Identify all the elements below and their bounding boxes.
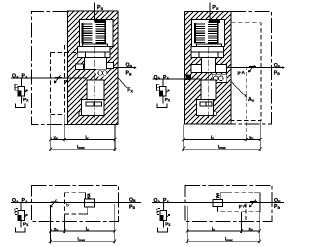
dimension line lmax BL — [49, 240, 116, 243]
svg-text:xv: xv — [54, 135, 59, 141]
flange side pockets TL — [78, 52, 86, 58]
dimension line lv/xv BR — [186, 229, 261, 232]
valve spring BR — [216, 193, 219, 198]
svg-text:QB: QB — [274, 198, 281, 204]
valve drain line BL — [84, 207, 88, 214]
spring TL — [82, 21, 107, 43]
spool neck TR — [199, 52, 218, 58]
dashed pilot box TR — [231, 23, 261, 121]
svg-text:QB: QB — [126, 63, 133, 69]
port B line TL — [114, 67, 136, 69]
svg-text:lmax: lmax — [225, 237, 233, 243]
tank symbol BL — [16, 228, 26, 232]
svg-text:PX: PX — [165, 221, 171, 227]
pilot tap line BL — [67, 202, 69, 206]
metering orifice detail TR — [212, 74, 226, 82]
svg-text:xv: xv — [249, 135, 254, 141]
valve body block TR (hatched) — [184, 12, 231, 124]
spool flange TL — [78, 46, 110, 52]
svg-text:FX: FX — [127, 88, 133, 94]
right port B cavity TL — [106, 63, 113, 69]
adjuster slashes BR — [250, 200, 258, 207]
pilot corner line BL — [80, 193, 85, 199]
relief valve symbol BL — [15, 202, 28, 227]
dimension line lmax TR — [182, 147, 262, 151]
pilot box solid corner BR — [254, 193, 260, 212]
relief valve symbol TL — [15, 78, 28, 103]
svg-text:lv: lv — [212, 226, 215, 232]
spool tip TL — [86, 102, 101, 106]
chain frame TR — [231, 12, 271, 124]
main line BR — [152, 201, 284, 203]
svg-text:PX: PX — [23, 221, 29, 227]
svg-text:lmax: lmax — [77, 145, 85, 151]
spring lower seat TL — [83, 44, 108, 46]
svg-text:lmax: lmax — [218, 145, 226, 151]
tank symbol TR — [157, 103, 167, 107]
main line A TR — [153, 78, 201, 80]
spring TR — [194, 21, 219, 43]
pilot corner line BR — [220, 193, 227, 200]
svg-text:lv: lv — [86, 135, 89, 141]
spool lower body TL — [87, 80, 104, 100]
svg-text:PA: PA — [163, 75, 169, 81]
dimension extension lines BL — [50, 204, 114, 244]
metering orifice detail TL — [96, 70, 108, 77]
svg-text:xv: xv — [249, 226, 254, 232]
tank symbol BR — [158, 228, 168, 232]
adjuster slashes TL — [54, 75, 68, 83]
spring chamber TL — [80, 19, 113, 46]
chain frame BL — [32, 185, 119, 221]
dimension line xv/lv BL — [49, 229, 116, 232]
relief valve symbol BR — [157, 202, 170, 227]
chain frame BR — [185, 185, 272, 221]
dimension line xv/lv TL — [49, 138, 116, 141]
svg-text:lv: lv — [211, 135, 214, 141]
dimension line lmax TL — [49, 148, 116, 151]
svg-text:QB: QB — [274, 63, 281, 69]
dimension line lv/xv TR — [182, 138, 262, 141]
svg-text:lmax: lmax — [78, 237, 86, 243]
spool neck TL — [86, 52, 105, 58]
svg-text:PX: PX — [165, 97, 171, 103]
svg-text:xv: xv — [54, 226, 59, 232]
svg-text:QA: QA — [12, 74, 19, 80]
dashed pilot box BR — [218, 193, 260, 212]
svg-text:PB: PB — [126, 71, 132, 77]
tank symbol TL — [16, 103, 26, 107]
svg-text:PA: PA — [163, 198, 169, 204]
valve spring BL — [87, 194, 90, 199]
dimension extension lines TR — [184, 66, 261, 151]
spool centre land TL — [85, 58, 107, 70]
svg-text:PB: PB — [274, 70, 280, 76]
pilot pressure line P TL — [94, 3, 96, 22]
left port A cavity TR — [191, 65, 201, 73]
port B line TR — [227, 67, 284, 69]
adjuster slashes BL — [50, 200, 58, 208]
svg-text:PA: PA — [22, 74, 28, 80]
svg-text:lv: lv — [86, 226, 89, 232]
dimension extension lines TL — [51, 115, 115, 152]
right port B cavity TR — [216, 65, 227, 73]
leader Fx TL — [118, 78, 127, 89]
bottom cavity step TL — [79, 112, 82, 116]
valve drain line BR — [217, 207, 219, 212]
spring top seat plug TR — [209, 20, 220, 23]
dashed pilot box BL — [65, 193, 84, 214]
spring top seat plug TL — [95, 20, 107, 23]
valve square BL — [84, 199, 94, 207]
svg-text:QB: QB — [129, 197, 136, 203]
leader Av TR — [231, 81, 247, 97]
bottom cavity step TR — [214, 112, 217, 116]
svg-text:PX: PX — [23, 97, 29, 103]
main line BL — [11, 201, 141, 203]
svg-text:QA: QA — [12, 198, 19, 204]
svg-text:QA: QA — [154, 198, 161, 204]
main line A TL — [11, 77, 87, 79]
valve square BR — [213, 199, 223, 206]
svg-text:p·A: p·A — [238, 70, 246, 75]
spool tip TR — [200, 102, 212, 106]
valve body block TL (hatched) — [67, 11, 118, 124]
spool centreline TL — [94, 47, 96, 122]
adjuster slashes TR — [249, 65, 257, 72]
svg-text:PB: PB — [129, 204, 135, 210]
closed seat block TR — [186, 74, 192, 80]
spring lower seat TR — [197, 44, 222, 46]
left port A cavity TL — [75, 64, 83, 70]
pilot pressure line P TR — [209, 3, 211, 22]
svg-text:PA: PA — [22, 198, 28, 204]
spool flange TR — [191, 46, 223, 52]
svg-text:QA: QA — [154, 75, 161, 81]
bottom cavity TR — [196, 100, 213, 116]
spool centreline TR — [208, 47, 210, 122]
spring chamber TR — [191, 19, 224, 46]
bottom cavity TL — [82, 100, 105, 116]
spool centre land TR — [201, 58, 215, 73]
svg-text:PB: PB — [274, 204, 280, 210]
chain frame TL — [32, 11, 68, 124]
dimension line lmax BR — [186, 240, 261, 243]
spool lower body TR — [201, 80, 216, 100]
svg-text:AV: AV — [248, 97, 255, 103]
relief valve symbol TR — [157, 79, 170, 103]
dimension extension lines BR — [187, 204, 259, 244]
flange side pockets TR — [191, 52, 199, 58]
dashed pilot box TL — [51, 45, 78, 115]
